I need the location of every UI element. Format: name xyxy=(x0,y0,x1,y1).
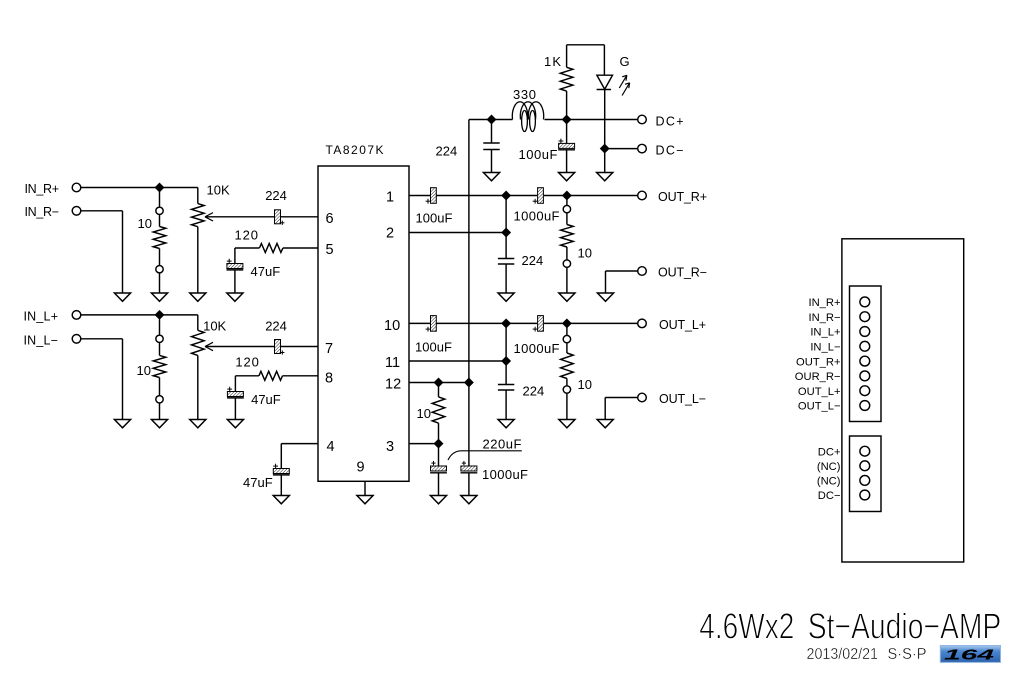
pin 10 label xyxy=(384,318,400,334)
junction node T2 xyxy=(562,115,571,124)
LED arrows xyxy=(619,75,629,95)
terminal DC- xyxy=(638,144,684,158)
terminal OUT_R- xyxy=(638,266,707,280)
svg-text:DC−: DC− xyxy=(818,490,841,502)
capacitor 47uF R xyxy=(227,248,281,293)
pin 8 label xyxy=(325,371,333,387)
wire pin 12 rail xyxy=(409,382,469,384)
ground xyxy=(227,420,243,428)
wire top bridge xyxy=(567,45,605,75)
resistor 1K xyxy=(544,54,573,120)
pin 2 label xyxy=(386,226,394,242)
svg-text:100uF: 100uF xyxy=(519,147,558,162)
svg-text:9: 9 xyxy=(357,460,365,476)
svg-text:10: 10 xyxy=(138,216,152,231)
connector pin (NC) xyxy=(817,461,870,473)
logo 164 xyxy=(940,646,1000,664)
wire to ground xyxy=(505,264,507,293)
ground xyxy=(597,420,613,428)
capacitor 224 top xyxy=(436,120,500,173)
svg-text:IN_R−: IN_R− xyxy=(808,312,840,324)
wire cap to ground xyxy=(438,473,440,496)
svg-text:10: 10 xyxy=(578,246,592,261)
svg-text:IN_L+: IN_L+ xyxy=(810,327,840,339)
svg-text:224: 224 xyxy=(265,318,287,333)
wire DC- xyxy=(605,148,638,150)
capacitor 224 R-out xyxy=(498,253,543,268)
svg-text:DC+: DC+ xyxy=(818,446,841,458)
wire IN_R+ to pot xyxy=(81,187,198,189)
connector pin (NC) xyxy=(817,476,870,488)
terminal OUT_L- xyxy=(638,392,706,406)
svg-text:224: 224 xyxy=(436,144,458,159)
svg-text:47uF: 47uF xyxy=(243,475,273,490)
wire cap to ground xyxy=(468,473,470,496)
svg-text:100uF: 100uF xyxy=(415,340,452,355)
terminal DC+ xyxy=(638,115,684,129)
svg-text:47uF: 47uF xyxy=(251,264,281,279)
svg-text:224: 224 xyxy=(523,384,545,399)
svg-text:224: 224 xyxy=(522,253,544,268)
svg-text:IN_R+: IN_R+ xyxy=(25,182,60,196)
ground xyxy=(559,420,575,428)
ground xyxy=(114,293,130,301)
terminal IN_R- xyxy=(25,205,81,219)
svg-text:S·S·P: S·S·P xyxy=(888,646,927,663)
ground xyxy=(114,420,130,428)
ground xyxy=(597,173,613,181)
svg-text:DC−: DC− xyxy=(656,144,684,158)
capacitor 224 R-input xyxy=(265,188,287,225)
wire pin 11 xyxy=(409,323,506,384)
wire to ground xyxy=(505,390,507,420)
ground xyxy=(559,293,575,301)
junction node P1 xyxy=(434,378,443,387)
capacitor 220uF xyxy=(430,437,521,473)
resistor 10 R-out xyxy=(561,196,592,294)
capacitor 100uF top xyxy=(519,120,576,173)
resistor 10 L-out xyxy=(561,323,592,419)
svg-text:TA8207K: TA8207K xyxy=(326,143,384,157)
wire pin 9 to ground xyxy=(364,481,366,495)
svg-text:1000uF: 1000uF xyxy=(482,467,528,482)
wire IN_R- to ground xyxy=(81,211,123,293)
wire DC+ rail xyxy=(469,119,638,121)
svg-text:St−Audio−AMP: St−Audio−AMP xyxy=(808,606,1002,647)
terminal OUT_R+ xyxy=(638,190,707,204)
wire pin 10 xyxy=(409,322,433,324)
connector J1 signal xyxy=(850,286,882,422)
svg-text:7: 7 xyxy=(325,341,333,357)
svg-text:(NC): (NC) xyxy=(817,461,841,473)
connector pin DC+ xyxy=(818,446,870,458)
svg-text:3: 3 xyxy=(386,439,394,455)
junction node DC- xyxy=(600,144,609,153)
wire 224 to pin 6 xyxy=(281,216,318,218)
connector pin OUR_R− xyxy=(795,371,870,383)
svg-text:4.6Wx2: 4.6Wx2 xyxy=(699,606,794,647)
junction node L3 xyxy=(501,356,510,365)
svg-text:100uF: 100uF xyxy=(416,211,453,226)
svg-text:1K: 1K xyxy=(544,54,561,69)
terminal IN_L+ xyxy=(24,309,81,323)
svg-text:8: 8 xyxy=(325,371,333,387)
wire to OUT_R+ xyxy=(436,195,637,197)
svg-text:120: 120 xyxy=(235,355,259,370)
junction node L1 xyxy=(501,319,510,328)
svg-text:12: 12 xyxy=(385,377,401,393)
svg-text:(NC): (NC) xyxy=(817,476,841,488)
resistor 10 ripple xyxy=(417,383,445,444)
svg-text:IN_L−: IN_L− xyxy=(24,333,59,347)
pin 4 label xyxy=(327,439,335,455)
svg-text:1000uF: 1000uF xyxy=(514,209,560,224)
junction node T1 xyxy=(487,115,496,124)
pin 9 label xyxy=(357,460,365,476)
wire pin 1 xyxy=(409,195,433,197)
connector pin IN_L+ xyxy=(810,327,869,339)
resistor 10 R-input shunt xyxy=(138,192,166,294)
svg-text:10: 10 xyxy=(137,363,151,378)
pin 3 label xyxy=(386,439,394,455)
svg-text:OUT_R−: OUT_R− xyxy=(658,266,707,280)
svg-text:G: G xyxy=(620,54,630,69)
pin 5 label xyxy=(326,242,334,258)
svg-text:10K: 10K xyxy=(203,318,226,333)
resistor 120 R xyxy=(235,228,319,253)
capacitor 47uF L xyxy=(227,376,281,420)
svg-text:IN_L+: IN_L+ xyxy=(24,309,59,323)
inductor 330 xyxy=(512,87,543,132)
wire IN_L- to ground xyxy=(81,339,123,420)
svg-text:10: 10 xyxy=(578,377,592,392)
svg-text:6: 6 xyxy=(326,211,334,227)
LED G xyxy=(597,54,630,90)
svg-text:10: 10 xyxy=(384,318,400,334)
pin 6 label xyxy=(326,211,334,227)
svg-text:10: 10 xyxy=(417,406,431,421)
potentiometer 10K R xyxy=(192,183,230,294)
wire power vertical xyxy=(468,120,470,383)
pin 11 label xyxy=(385,355,400,371)
capacitor 100uF pin10 xyxy=(415,316,452,355)
connector pin DC− xyxy=(818,490,870,502)
pin 7 label xyxy=(325,341,333,357)
junction node P2 xyxy=(464,378,473,387)
ground xyxy=(597,293,613,301)
svg-text:OUT_L+: OUT_L+ xyxy=(659,318,706,332)
capacitor 100uF pin1 xyxy=(416,188,453,226)
capacitor 1000uF bottom xyxy=(461,383,529,483)
wire to OUT_L+ xyxy=(436,322,637,324)
svg-text:IN_R−: IN_R− xyxy=(25,205,60,219)
ground xyxy=(498,420,514,428)
wire pin 4 xyxy=(281,444,318,469)
pot wiper arrow L xyxy=(205,342,274,350)
svg-text:IN_L−: IN_L− xyxy=(810,342,840,354)
ground xyxy=(430,496,446,504)
svg-text:330: 330 xyxy=(513,87,536,102)
capacitor 1000uF R-out xyxy=(514,188,560,224)
resistor 10 L-input shunt xyxy=(137,319,166,419)
svg-text:1000uF: 1000uF xyxy=(514,341,560,356)
junction node R1 xyxy=(501,191,510,200)
ground xyxy=(483,173,499,181)
svg-text:OUT_L−: OUT_L− xyxy=(798,401,841,413)
junction node L-in xyxy=(155,310,164,319)
wire pin 2 xyxy=(409,196,506,259)
svg-text:OUT_R+: OUT_R+ xyxy=(796,356,840,368)
junction node R2 xyxy=(562,191,571,200)
connector pin OUT_L+ xyxy=(798,386,870,398)
svg-text:2: 2 xyxy=(386,226,394,242)
date and author xyxy=(807,646,927,663)
ground xyxy=(559,173,575,181)
svg-text:120: 120 xyxy=(235,228,259,243)
leader line 220uF xyxy=(448,451,522,460)
connector pin IN_R+ xyxy=(808,297,869,309)
svg-text:1: 1 xyxy=(386,190,394,206)
svg-text:5: 5 xyxy=(326,242,334,258)
wire pin 3 xyxy=(409,443,439,445)
svg-text:DC+: DC+ xyxy=(656,115,684,129)
svg-text:224: 224 xyxy=(265,188,287,203)
svg-text:OUR_R−: OUR_R− xyxy=(795,371,841,383)
junction node P3 xyxy=(434,439,443,448)
potentiometer 10K L xyxy=(192,315,227,420)
svg-text:4: 4 xyxy=(327,439,335,455)
ground xyxy=(498,293,514,301)
capacitor 47uF pin4 xyxy=(243,464,290,490)
terminal IN_L- xyxy=(24,333,81,347)
ground xyxy=(461,496,477,504)
connector outer frame xyxy=(842,239,964,562)
svg-text:11: 11 xyxy=(385,355,400,371)
capacitor 1000uF L-out xyxy=(514,316,560,356)
svg-text:OUT_L−: OUT_L− xyxy=(659,392,706,406)
ground xyxy=(190,293,206,301)
svg-text:2013/02/21: 2013/02/21 xyxy=(807,646,879,663)
ground xyxy=(273,496,289,504)
capacitor 224 L-input xyxy=(265,318,287,354)
wire OUT_R- to ground xyxy=(606,271,638,293)
wire OUT_L- to ground xyxy=(605,398,638,420)
svg-text:47uF: 47uF xyxy=(251,392,281,407)
svg-text:OUT_R+: OUT_R+ xyxy=(658,190,707,204)
op-amp U1 TA8207K body xyxy=(318,143,409,481)
terminal OUT_L+ xyxy=(638,318,706,332)
connector pin OUT_R+ xyxy=(796,356,870,368)
junction node R3 xyxy=(501,228,510,237)
wire LED cathode xyxy=(604,90,606,149)
ground xyxy=(151,293,167,301)
connector pin IN_R− xyxy=(808,312,869,324)
junction node R-in xyxy=(155,183,164,192)
ground xyxy=(227,293,243,301)
connector pin IN_L− xyxy=(810,341,869,353)
svg-text:10K: 10K xyxy=(207,183,230,198)
connector pin OUT_L− xyxy=(798,401,870,413)
svg-text:164: 164 xyxy=(944,648,994,664)
svg-text:IN_R+: IN_R+ xyxy=(808,297,840,309)
wire 224 to pin 7 xyxy=(281,346,318,348)
capacitor 224 L-out xyxy=(498,384,544,399)
pin 1 label xyxy=(386,190,394,206)
pin 12 label xyxy=(385,377,401,393)
junction node L2 xyxy=(562,319,571,328)
svg-text:220uF: 220uF xyxy=(483,437,522,452)
ground xyxy=(190,420,206,428)
terminal IN_R+ xyxy=(25,182,81,196)
svg-text:OUT_L+: OUT_L+ xyxy=(798,386,841,398)
title text xyxy=(699,606,1001,647)
ground xyxy=(357,496,373,504)
resistor 120 L xyxy=(235,355,318,381)
wire LED to ground xyxy=(604,149,606,173)
pot wiper arrow R xyxy=(205,213,274,221)
wire IN_L+ to pot xyxy=(81,314,198,316)
connector J2 power xyxy=(850,436,882,512)
ground xyxy=(151,420,167,428)
wire cap to ground xyxy=(280,475,282,495)
